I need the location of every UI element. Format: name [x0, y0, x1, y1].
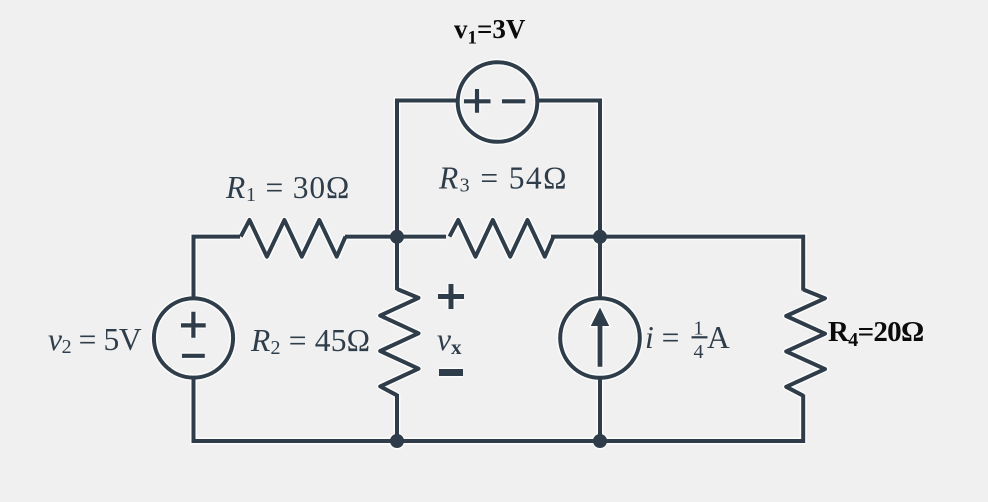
svg-text:v2 = 5V: v2 = 5V [48, 322, 142, 358]
circuit line work [154, 62, 825, 441]
svg-text:R2 = 45Ω: R2 = 45Ω [250, 323, 370, 359]
svg-text:i =: i = [645, 320, 679, 355]
svg-text:4: 4 [694, 341, 704, 363]
svg-text:R3 = 54Ω: R3 = 54Ω [438, 161, 568, 197]
svg-text:vx: vx [437, 322, 462, 359]
svg-text:A: A [707, 320, 730, 355]
svg-text:R1 = 30Ω: R1 = 30Ω [225, 170, 350, 206]
svg-text:v1=3V: v1=3V [454, 14, 526, 49]
label i = 1/4 A [645, 318, 730, 364]
svg-text:R4=20Ω: R4=20Ω [828, 316, 924, 351]
white halo under-strokes (decorative resampling artifact) [154, 62, 825, 448]
